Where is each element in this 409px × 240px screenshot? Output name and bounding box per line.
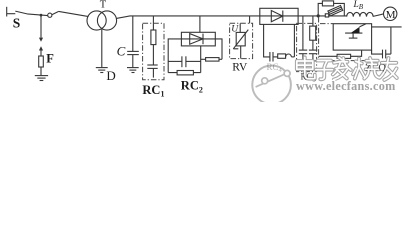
- wire: [240, 46, 242, 59]
- ground: [127, 67, 139, 69]
- wire left link: [168, 39, 181, 73]
- varistor diagonal: [233, 30, 248, 49]
- wire hop: [286, 54, 292, 57]
- capacitor C: [132, 16, 134, 51]
- transformer T secondary circle: [97, 11, 116, 30]
- enclosure RV: [230, 23, 253, 58]
- wire RC3 branch 1: [302, 16, 304, 50]
- resistor gate: [319, 55, 338, 57]
- watermark text gray casing: [297, 57, 397, 80]
- enclosure ZCQ left edge: [318, 17, 320, 61]
- resistor bottom of RC2: [177, 71, 193, 75]
- wire return line: [372, 26, 402, 28]
- wire snubber right: [293, 24, 295, 57]
- capacitor: [309, 49, 317, 51]
- svg-text:F: F: [46, 52, 54, 66]
- svg-text:LB: LB: [353, 0, 364, 11]
- varistor RV body: [236, 32, 245, 46]
- transformer T primary circle: [87, 11, 106, 30]
- motor M circle: [384, 7, 397, 20]
- capacitor: [299, 49, 307, 51]
- switch S blade 2: [52, 11, 59, 14]
- svg-text:S: S: [13, 15, 21, 30]
- capacitor snubber: [269, 52, 271, 62]
- label RC3: [301, 63, 387, 84]
- enclosure RC3: [297, 23, 317, 71]
- enclosure ZCQ top edge: [320, 23, 333, 25]
- wire RC3 branch 2: [312, 16, 314, 26]
- wire main bus: [116, 16, 318, 19]
- wire: [27, 14, 48, 16]
- dash-dot boxes: [143, 17, 376, 80]
- capacitor in RC2: [168, 60, 182, 62]
- node junction dot: [317, 14, 320, 17]
- thyristor: [345, 32, 362, 34]
- wire RC2 drop: [199, 16, 201, 32]
- resistor top path: [322, 1, 333, 6]
- ground D: [96, 67, 108, 69]
- svg-text:RC1: RC1: [142, 83, 164, 99]
- wire: [372, 50, 383, 54]
- svg-text:T: T: [100, 0, 107, 10]
- wire bottom: [168, 72, 201, 74]
- diode: [271, 11, 283, 22]
- wire right link: [215, 39, 222, 59]
- wire: [40, 67, 42, 75]
- wire RC1 drop: [152, 16, 154, 30]
- wire: [390, 27, 392, 54]
- wire: [334, 3, 345, 16]
- wire: [373, 14, 383, 17]
- svg-text:C: C: [117, 44, 126, 59]
- svg-text:U: U: [231, 25, 239, 35]
- svg-text:www.elecfans.com: www.elecfans.com: [296, 79, 396, 93]
- diode box of RC2: [181, 32, 215, 46]
- supply terminal bar: [6, 7, 8, 17]
- wire mid vertical: [200, 46, 202, 73]
- inductor LB: [347, 12, 373, 16]
- diode: [190, 34, 203, 45]
- wire top path: [318, 3, 322, 16]
- wire snubber left: [264, 24, 270, 57]
- wire: [303, 60, 319, 62]
- svg-text:D: D: [106, 68, 115, 83]
- watermark text white core: [297, 57, 397, 80]
- wire center tap: [101, 29, 103, 67]
- switch S contact circle: [48, 13, 52, 17]
- svg-text:RV: RV: [232, 61, 248, 73]
- wire RV drop: [249, 16, 251, 24]
- wire: [7, 13, 16, 15]
- brush contact hatched bar: [328, 5, 343, 16]
- wire: [318, 15, 347, 17]
- wire: [152, 45, 154, 65]
- arrester F up arrow: [39, 46, 43, 50]
- resistor snubber: [278, 54, 286, 58]
- resistor right of RC2: [206, 58, 219, 62]
- diode box D2 on bus: [260, 8, 298, 24]
- arrester F body rect: [39, 56, 44, 67]
- resistor in RC1: [151, 30, 156, 45]
- ground: [35, 75, 48, 77]
- capacitor in RC1: [147, 64, 157, 66]
- enclosure ZCQ bottom edge: [319, 60, 376, 62]
- thyristor module box: [333, 24, 371, 50]
- capacitor snubber thyristor: [382, 50, 384, 59]
- resistor: [310, 26, 316, 40]
- enclosure RC1: [143, 23, 164, 80]
- arrester F down arrow: [40, 15, 42, 38]
- wire: [152, 68, 154, 77]
- node junction dot: [40, 14, 43, 17]
- thermal contact square: [325, 14, 328, 17]
- svg-text:M: M: [386, 9, 396, 21]
- switch S blade 1: [15, 11, 27, 14]
- wire: [59, 11, 89, 16]
- watermark logo circle: [252, 62, 291, 104]
- svg-text:RC2: RC2: [181, 79, 203, 95]
